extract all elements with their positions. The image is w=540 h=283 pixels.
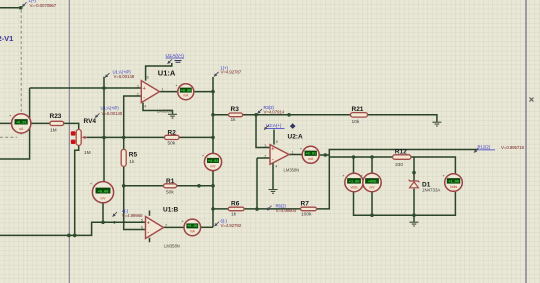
svg-text:R2: R2 [168,129,177,136]
svg-text:mV: mV [100,197,106,201]
svg-text:mA: mA [183,94,189,98]
svg-text:1: 1 [162,88,164,92]
svg-text:1N4733A: 1N4733A [422,188,440,193]
svg-text:1k: 1k [231,117,237,123]
svg-text:V=5.00148: V=5.00148 [114,74,135,79]
svg-text:Volts: Volts [450,185,458,189]
svg-text:+: + [143,86,146,92]
svg-text:mA: mA [308,157,314,161]
svg-text:R6: R6 [231,200,240,207]
svg-text:R5: R5 [129,151,138,158]
svg-text:R1: R1 [166,178,175,185]
svg-text:50k: 50k [166,190,174,196]
svg-text:8: 8 [276,140,278,144]
svg-text:R12(2): R12(2) [478,145,491,150]
svg-text:RV4: RV4 [84,118,97,125]
svg-text:2-V1: 2-V1 [0,34,13,43]
svg-text:V=5.00140: V=5.00140 [102,111,123,116]
svg-text:+4.93: +4.93 [208,160,219,164]
svg-text:V=4.92787: V=4.92787 [221,70,242,75]
svg-text:5: 5 [141,219,143,223]
svg-text:V=0.995719: V=0.995719 [501,145,525,150]
svg-text:+995: +995 [368,181,377,185]
svg-text:1M: 1M [84,150,91,156]
svg-text:2: 2 [137,92,139,96]
svg-text:V=4.99968: V=4.99968 [122,213,143,218]
svg-text:+5.00: +5.00 [98,190,109,194]
svg-text:1k: 1k [231,212,237,218]
svg-text:R12: R12 [395,149,407,156]
svg-text:1M: 1M [50,128,57,134]
svg-text:LM358N: LM358N [284,168,300,173]
svg-text:V=4.92792: V=4.92792 [221,223,242,228]
svg-text:10k: 10k [352,119,360,125]
svg-text:V=4.07914: V=4.07914 [264,110,285,115]
svg-text:R23: R23 [50,113,62,120]
svg-text:mA: mA [190,230,196,234]
svg-text:1: 1 [292,151,294,155]
svg-text:U1:A(+IP): U1:A(+IP) [101,105,120,110]
svg-text:-: - [147,230,149,236]
svg-text:U1:B: U1:B [163,206,178,213]
svg-text:LM358N: LM358N [164,244,180,249]
svg-text:330: 330 [395,162,403,168]
svg-text:U2:A: U2:A [288,133,303,140]
svg-text:4: 4 [275,165,277,169]
svg-text:uA: uA [19,127,24,131]
svg-text:U1:A: U1:A [158,69,176,78]
svg-text:+0.01: +0.01 [305,153,316,157]
svg-text:-: - [272,156,274,162]
svg-text:R3: R3 [231,106,240,113]
svg-text:1k: 1k [129,159,135,165]
svg-text:50k: 50k [168,140,176,146]
svg-text:+: + [271,147,274,153]
svg-text:6: 6 [141,226,143,230]
svg-text:mV: mV [210,164,216,168]
svg-text:+1.00: +1.00 [349,181,360,185]
svg-text:R21: R21 [352,106,364,113]
svg-text:V=4.99904: V=4.99904 [276,208,297,213]
svg-text:LM358N: LM358N [157,109,173,114]
svg-text:4: 4 [144,105,146,109]
svg-text:R7: R7 [301,200,310,207]
svg-text:2: 2 [264,155,266,159]
svg-text:V=-0.0070967: V=-0.0070967 [30,3,57,8]
svg-text:100k: 100k [301,212,312,218]
svg-text:3: 3 [137,84,139,88]
svg-text:Volts: Volts [350,186,358,190]
svg-text:+0.01: +0.01 [16,121,27,125]
svg-text:8: 8 [147,76,149,80]
svg-text:7: 7 [165,223,167,227]
svg-text:mV: mV [369,186,375,190]
svg-text:U1:A(V+): U1:A(V+) [166,53,185,58]
svg-text:+1.00: +1.00 [448,181,459,185]
svg-text:+: + [147,221,150,227]
svg-text:3: 3 [264,144,266,148]
svg-text:-: - [143,95,145,101]
